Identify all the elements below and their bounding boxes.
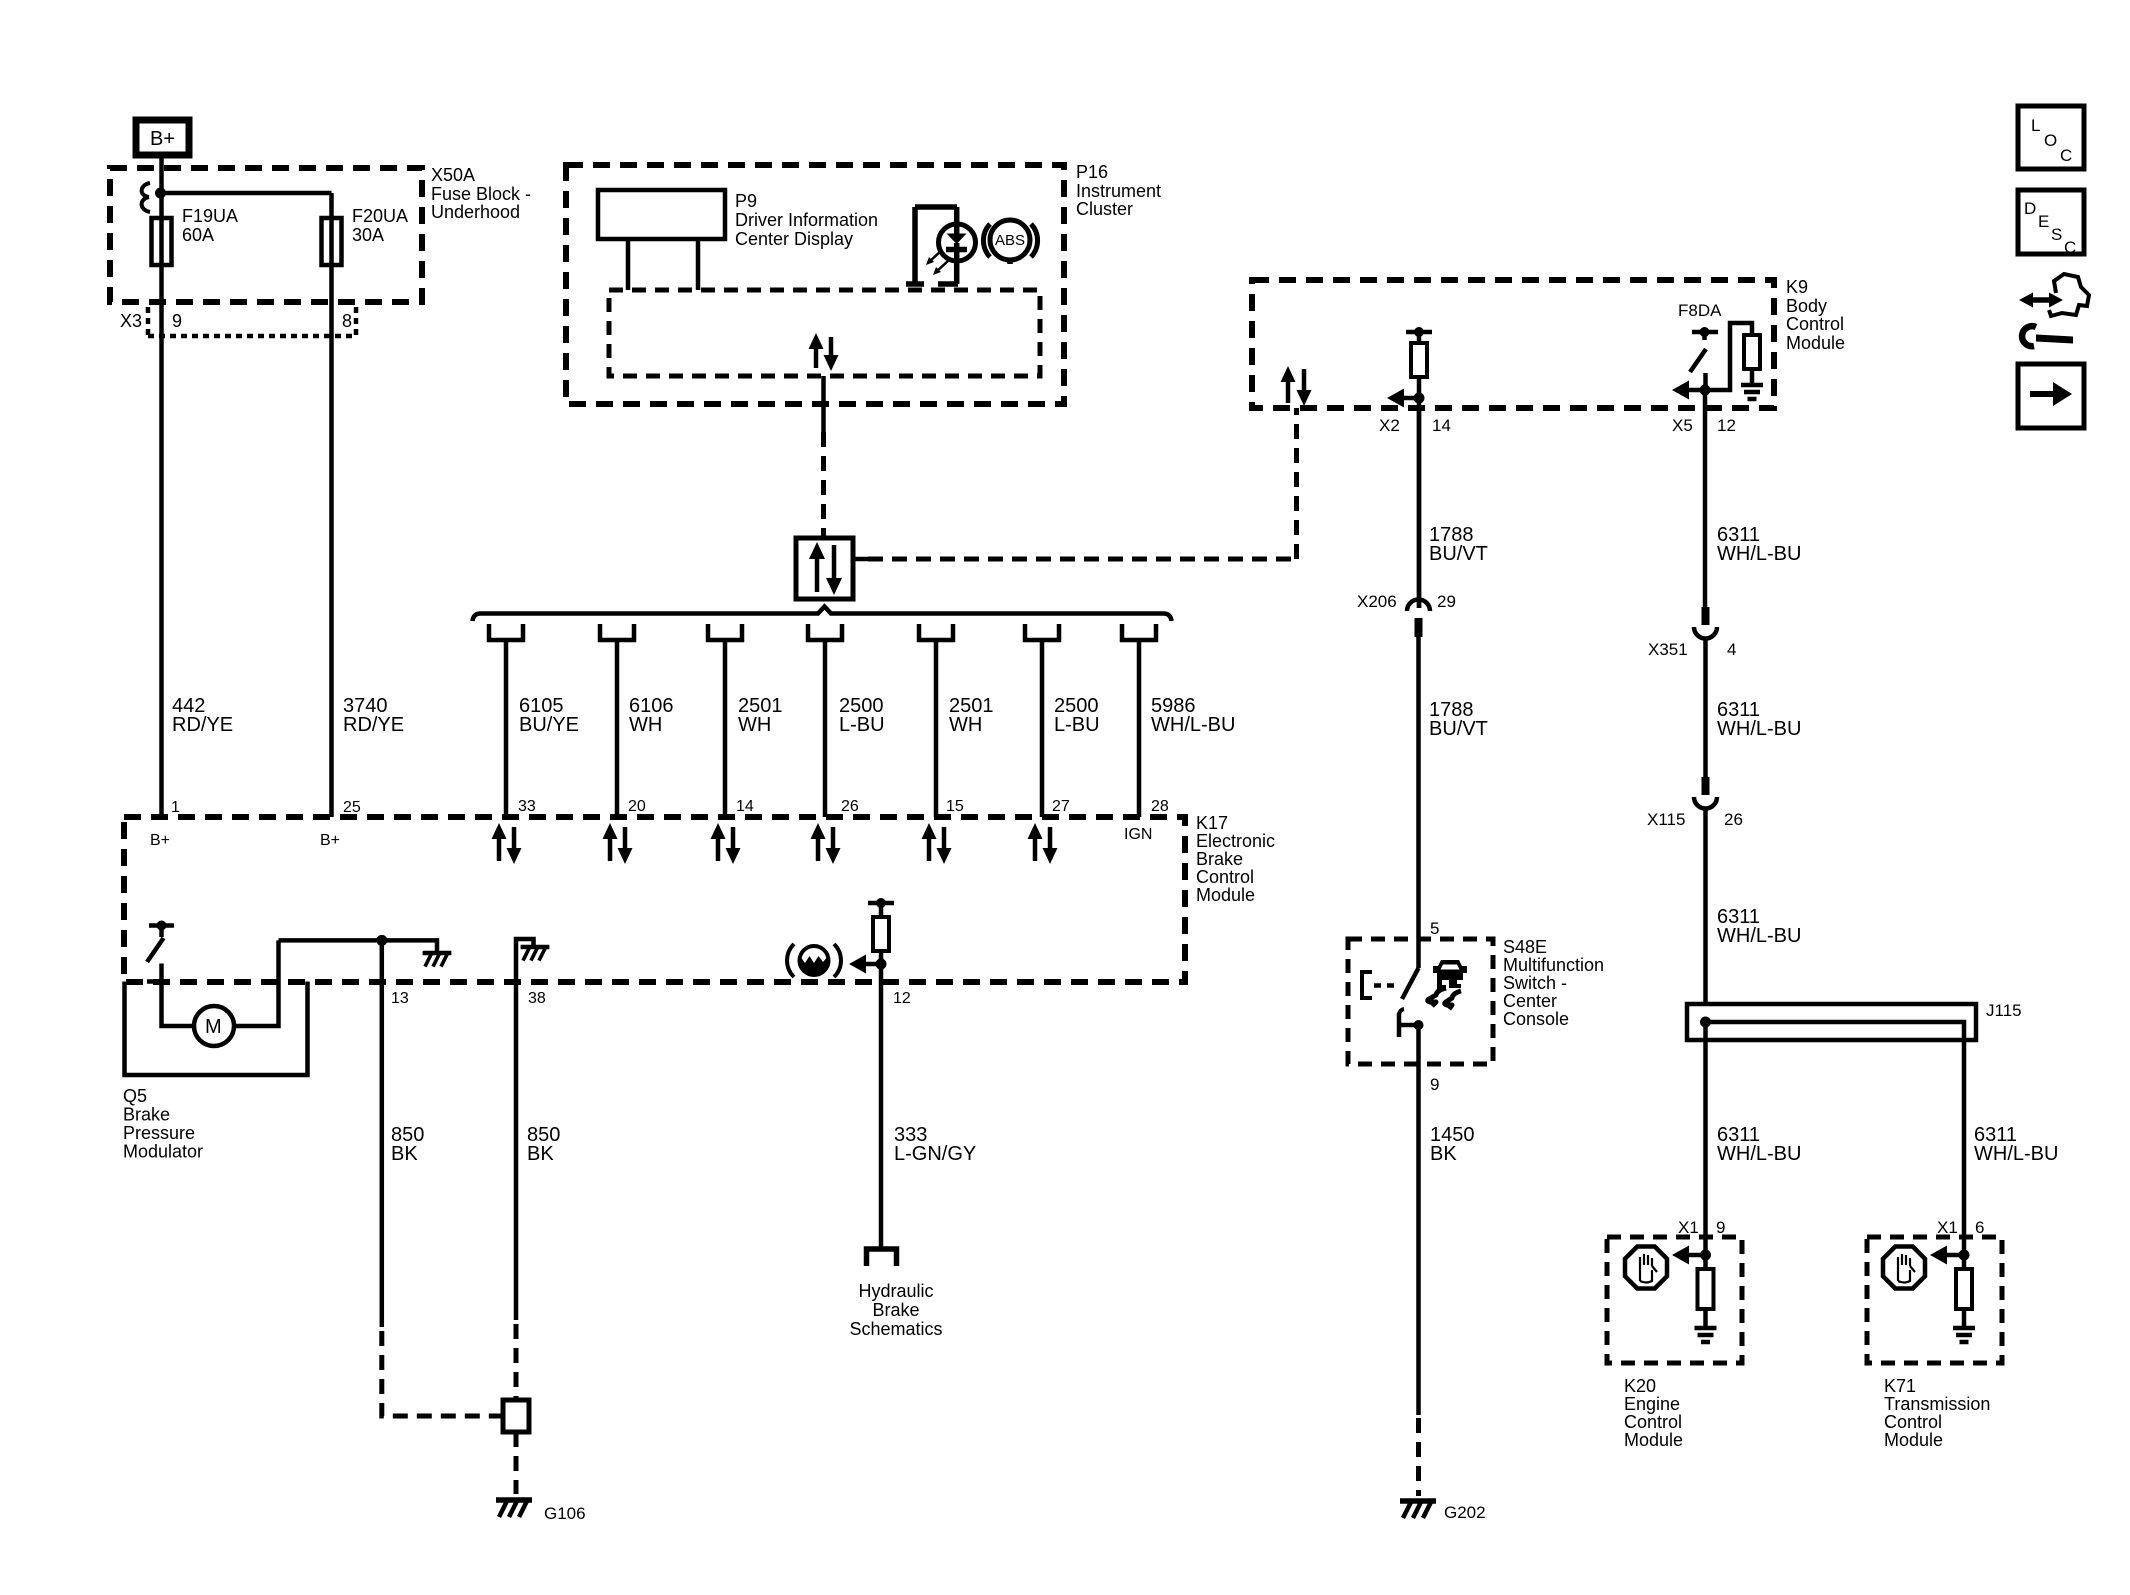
svg-text:15: 15 [946, 798, 964, 815]
svg-text:L-GN/GY: L-GN/GY [894, 1143, 976, 1165]
ground chassis K17 pin38 [521, 947, 550, 961]
serial data symbol [796, 538, 853, 599]
ground G202 [1400, 1501, 1436, 1518]
svg-text:X3: X3 [120, 311, 142, 331]
svg-text:G106: G106 [544, 1504, 586, 1523]
resistor X2 branch in K9 [1406, 327, 1432, 398]
svg-text:X2: X2 [1379, 416, 1400, 435]
serial data arrows pin 26 [811, 823, 841, 864]
resistor in K17 pin12 [868, 898, 894, 964]
svg-text:9: 9 [1430, 1075, 1439, 1094]
svg-text:Brake: Brake [1196, 849, 1243, 869]
terminal 27 [1025, 624, 1059, 640]
svg-text:IGN: IGN [1124, 826, 1152, 843]
dashed wire serial to symbol [821, 432, 826, 538]
serial data arrows pin 14 [711, 823, 741, 864]
svg-text:Brake: Brake [123, 1105, 170, 1125]
legend connector icon [2019, 274, 2089, 316]
wire through F20UA down to pin 25 [329, 193, 334, 817]
svg-text:Module: Module [1884, 1430, 1943, 1450]
svg-text:9: 9 [172, 311, 182, 331]
svg-text:ABS: ABS [995, 232, 1025, 249]
wire into K20 [1703, 1237, 1708, 1269]
node junction X2 [1414, 393, 1425, 404]
svg-text:BK: BK [527, 1143, 554, 1165]
resistor K71 [1956, 1269, 1972, 1328]
svg-text:Control: Control [1786, 314, 1844, 334]
svg-text:Schematics: Schematics [849, 1319, 942, 1339]
arrow X2 [1387, 389, 1419, 408]
wire 2501 a [723, 640, 728, 817]
terminal 28 [1122, 624, 1156, 640]
switch S48E Multifunction Switch [1348, 939, 1493, 1064]
node junction K71 [1959, 1250, 1970, 1261]
svg-text:Cluster: Cluster [1076, 199, 1133, 219]
wire motor left lead [162, 982, 195, 1027]
svg-text:K17: K17 [1196, 813, 1228, 833]
arrow K20 [1672, 1246, 1705, 1265]
octagon hand icon K71 [1883, 1247, 1925, 1289]
arrow X5 [1672, 381, 1705, 400]
svg-text:Center Display: Center Display [735, 229, 853, 249]
svg-text:Driver Information: Driver Information [735, 210, 878, 230]
svg-text:L-BU: L-BU [839, 714, 885, 736]
legend arrow box [2018, 364, 2084, 428]
ground earth K9 [1741, 385, 1763, 399]
svg-text:X351: X351 [1648, 640, 1688, 659]
svg-text:D: D [2024, 199, 2036, 218]
inner dashed box P16 [609, 290, 1040, 376]
svg-text:C: C [2060, 146, 2072, 165]
connector X3 [148, 307, 356, 336]
switch F8DA in K9 [1690, 327, 1718, 390]
svg-text:B+: B+ [150, 128, 175, 150]
svg-text:B+: B+ [320, 832, 340, 849]
dashed wire splice to G106 [514, 1432, 519, 1494]
relay contact in K17 [147, 921, 174, 982]
svg-text:6: 6 [1975, 1218, 1984, 1237]
svg-text:K71: K71 [1884, 1376, 1916, 1396]
svg-text:30A: 30A [352, 225, 384, 245]
wire 6105 [504, 640, 509, 817]
svg-text:Fuse Block -: Fuse Block - [431, 184, 531, 204]
module K9 Body Control Module [1252, 280, 1774, 408]
terminal 33 [489, 624, 523, 640]
clip symbol [142, 183, 150, 212]
svg-text:12: 12 [893, 990, 911, 1007]
wire 2500 b [1040, 640, 1045, 817]
serial data arrows in P16 [809, 333, 839, 371]
ground G106 [496, 1500, 532, 1517]
svg-text:WH/L-BU: WH/L-BU [1717, 718, 1801, 740]
legend LOC box [2018, 106, 2084, 169]
svg-text:BK: BK [1430, 1143, 1457, 1165]
wire J115 to K71 [1962, 1040, 1967, 1237]
svg-text:60A: 60A [182, 225, 214, 245]
arrow to brake telltale [849, 955, 881, 974]
wire J115 to K20 [1703, 1022, 1708, 1237]
svg-text:M: M [205, 1016, 222, 1038]
svg-text:27: 27 [1052, 798, 1070, 815]
wire 6311 to J115 [1703, 809, 1708, 1004]
node junction pin13 [376, 935, 387, 946]
svg-text:Q5: Q5 [123, 1086, 147, 1106]
svg-text:X115: X115 [1647, 810, 1685, 829]
fuse block X50A [110, 168, 422, 302]
wire 6311 middle [1703, 639, 1708, 777]
svg-text:Engine: Engine [1624, 1394, 1680, 1414]
LED lead [954, 207, 960, 284]
svg-text:BU/VT: BU/VT [1429, 543, 1488, 565]
svg-text:WH: WH [949, 714, 982, 736]
svg-text:Brake: Brake [872, 1300, 919, 1320]
bus brace [473, 607, 1172, 622]
switch lever S48E [1402, 968, 1419, 999]
pump Q5 outline [125, 982, 308, 1076]
svg-text:29: 29 [1437, 592, 1456, 611]
wire 6106 [615, 640, 620, 817]
wire to ground and pin 13 [279, 940, 438, 951]
svg-text:33: 33 [518, 798, 536, 815]
svg-text:K9: K9 [1786, 277, 1808, 297]
svg-text:P9: P9 [735, 191, 757, 211]
svg-text:BK: BK [391, 1143, 418, 1165]
svg-text:Pressure: Pressure [123, 1123, 195, 1143]
svg-text:K20: K20 [1624, 1376, 1656, 1396]
dashed wire pin13 to splice [382, 1331, 501, 1416]
svg-text:26: 26 [841, 798, 859, 815]
terminal 26 [808, 624, 842, 640]
brake telltale lamp holder [906, 207, 958, 284]
connector X115 [1694, 777, 1717, 809]
LED indicator circle [939, 224, 976, 261]
svg-text:12: 12 [1717, 416, 1736, 435]
svg-text:X5: X5 [1672, 416, 1693, 435]
wire pin 12 down [879, 964, 884, 1247]
svg-text:X1: X1 [1678, 1218, 1699, 1237]
svg-text:X1: X1 [1937, 1218, 1958, 1237]
wire cluster serial down [821, 376, 826, 432]
svg-text:E: E [2038, 212, 2049, 231]
svg-text:X50A: X50A [431, 165, 475, 185]
wire 5986 [1137, 640, 1142, 817]
cluster P16 Instrument Cluster [566, 165, 1064, 404]
svg-text:Multifunction: Multifunction [1503, 955, 1604, 975]
svg-text:L: L [2031, 116, 2040, 135]
svg-text:9: 9 [1716, 1218, 1725, 1237]
display P9 [598, 190, 725, 290]
lower contact S48E [1399, 1009, 1424, 1037]
wire 2500 a [823, 640, 828, 817]
node junction X5 [1700, 385, 1711, 396]
wire X2 pin14 down [1417, 398, 1422, 608]
arrow K71 [1930, 1246, 1964, 1265]
svg-text:Module: Module [1624, 1430, 1683, 1450]
wire through F19UA down to pin 1 [159, 193, 164, 817]
svg-text:38: 38 [528, 990, 546, 1007]
svg-text:Instrument: Instrument [1076, 181, 1161, 201]
svg-text:4: 4 [1727, 640, 1736, 659]
wire to F20UA [161, 191, 332, 196]
svg-text:28: 28 [1151, 798, 1169, 815]
motor M [194, 1006, 234, 1046]
svg-text:Switch -: Switch - [1503, 973, 1567, 993]
ground chassis K17 right [423, 953, 452, 967]
svg-text:Electronic: Electronic [1196, 831, 1275, 851]
ground earth K71 [1953, 1328, 1975, 1342]
node junction K20 [1700, 1250, 1711, 1261]
dashed wire to G202 [1416, 1418, 1421, 1496]
svg-text:WH/L-BU: WH/L-BU [1717, 543, 1801, 565]
dashed wire pin38 to splice [514, 1324, 519, 1398]
wire pin 38 down [514, 982, 519, 1321]
node junction B+ [155, 188, 166, 199]
wire 1788 upper [1417, 408, 1422, 608]
splice pack J115 [1687, 1004, 1976, 1040]
terminal 14 [708, 624, 742, 640]
svg-text:25: 25 [343, 799, 361, 816]
svg-text:F8DA: F8DA [1678, 301, 1722, 320]
wire pin 38 to ground [516, 939, 534, 982]
svg-text:Body: Body [1786, 296, 1827, 316]
wire pin 13 down [380, 940, 385, 1327]
svg-text:BU/YE: BU/YE [519, 714, 579, 736]
fuse F19UA [152, 218, 172, 265]
svg-text:X206: X206 [1357, 592, 1397, 611]
wire motor right lead [234, 940, 279, 1026]
svg-text:Center: Center [1503, 991, 1557, 1011]
svg-text:8: 8 [342, 311, 352, 331]
brake warning telltale [787, 944, 841, 977]
module K20 Engine Control Module [1607, 1237, 1742, 1363]
svg-text:WH: WH [629, 714, 662, 736]
svg-text:Modulator: Modulator [123, 1142, 203, 1162]
svg-text:Transmission: Transmission [1884, 1394, 1990, 1414]
svg-text:WH/L-BU: WH/L-BU [1151, 714, 1235, 736]
connector X351 [1694, 607, 1717, 639]
legend wrench icon [2022, 326, 2073, 346]
svg-text:Control: Control [1196, 867, 1254, 887]
fuse F20UA [322, 218, 342, 265]
latch bracket S48E [1362, 972, 1400, 998]
ABS telltale [983, 220, 1037, 264]
serial data arrows pin 15 [922, 823, 952, 864]
svg-text:WH/L-BU: WH/L-BU [1717, 925, 1801, 947]
splice box [503, 1400, 529, 1432]
node junction pin12 [876, 959, 887, 970]
svg-text:S48E: S48E [1503, 937, 1547, 957]
svg-text:13: 13 [391, 990, 409, 1007]
svg-text:F19UA: F19UA [182, 206, 238, 226]
octagon hand icon K20 [1625, 1247, 1667, 1289]
svg-text:Control: Control [1624, 1412, 1682, 1432]
svg-text:14: 14 [736, 798, 754, 815]
svg-text:20: 20 [628, 798, 646, 815]
module K71 Transmission Control Module [1867, 1237, 2002, 1363]
svg-text:L-BU: L-BU [1054, 714, 1100, 736]
svg-text:5: 5 [1430, 919, 1439, 938]
LED diode [946, 226, 967, 261]
wire 6311 upper [1703, 408, 1708, 607]
off-page connector hydraulic [867, 1249, 897, 1266]
svg-text:BU/VT: BU/VT [1429, 718, 1488, 740]
serial data arrows in K9 [1281, 366, 1312, 406]
svg-text:Underhood: Underhood [431, 202, 520, 222]
wire 1788 lower [1416, 637, 1421, 968]
serial data arrows pin 20 [603, 823, 633, 864]
svg-text:RD/YE: RD/YE [343, 714, 404, 736]
svg-text:O: O [2044, 131, 2057, 150]
svg-text:WH: WH [738, 714, 771, 736]
svg-text:F20UA: F20UA [352, 206, 408, 226]
svg-text:Control: Control [1884, 1412, 1942, 1432]
svg-text:B+: B+ [150, 832, 170, 849]
wire 2501 b [934, 640, 939, 817]
traction icon S48E [1428, 960, 1467, 1009]
legend DESC box [2018, 190, 2084, 257]
LED emission arrows [926, 250, 949, 275]
svg-text:G202: G202 [1444, 1503, 1486, 1522]
terminal 20 [600, 624, 634, 640]
svg-text:1: 1 [171, 799, 180, 816]
connector X206 [1407, 600, 1430, 638]
svg-text:Console: Console [1503, 1009, 1569, 1029]
wire S48E pin9 down [1416, 1025, 1421, 1415]
serial data arrows pin 33 [492, 823, 522, 864]
svg-text:14: 14 [1432, 416, 1451, 435]
svg-text:WH/L-BU: WH/L-BU [1974, 1143, 2058, 1165]
svg-text:P16: P16 [1076, 162, 1108, 182]
wire B+ to fuse block [159, 158, 164, 193]
resistor K20 [1698, 1269, 1714, 1328]
svg-text:RD/YE: RD/YE [172, 714, 233, 736]
svg-text:C: C [2064, 238, 2076, 257]
wire into K71 [1962, 1237, 1967, 1269]
svg-text:26: 26 [1724, 810, 1743, 829]
svg-text:WH/L-BU: WH/L-BU [1717, 1143, 1801, 1165]
ground earth K20 [1695, 1328, 1717, 1342]
dashed wire serial symbol to K9 [853, 557, 868, 562]
terminal 15 [919, 624, 953, 640]
svg-text:S: S [2051, 225, 2062, 244]
serial data arrows pin 27 [1028, 823, 1058, 864]
fuse branch in K9 [1705, 323, 1760, 390]
module K17 Electronic Brake Control Module [124, 817, 1185, 982]
svg-text:Module: Module [1786, 333, 1845, 353]
svg-text:Module: Module [1196, 885, 1255, 905]
wire X5 pin12 down [1703, 390, 1708, 408]
battery feed B+ [136, 120, 189, 155]
svg-text:J115: J115 [1986, 1001, 2022, 1020]
svg-text:Hydraulic: Hydraulic [858, 1281, 933, 1301]
